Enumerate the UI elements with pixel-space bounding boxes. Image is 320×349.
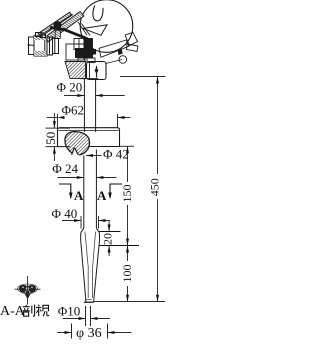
100 [126,246,129,253]
phi36 [65,331,72,334]
svg-text:450: 450 [147,178,161,196]
bulge collar [81,227,84,241]
dark chain link [118,49,123,56]
small white cells below [78,58,85,63]
phi10 [79,317,86,320]
entry stub [28,44,31,46]
white box [66,44,84,60]
phi40 [74,219,81,222]
head body center [65,39,122,80]
small hatched boss [55,31,60,39]
tip face [84,301,94,303]
chain blob [53,21,61,29]
skirt lines [78,22,90,36]
phi42 leader [86,155,102,157]
wing nut lower [127,44,139,52]
step D [53,39,59,54]
terminal box [87,62,107,80]
bottom extension [94,301,165,303]
svg-text:A: A [97,188,107,203]
20 dim lines [99,231,121,233]
150 [126,146,129,153]
screw symbol in box [96,66,98,78]
phi62 [58,116,65,119]
svg-text:A-A: A-A [0,304,26,319]
A-A arrows [69,193,73,200]
svg-text:100: 100 [120,265,134,283]
150 dim [120,145,135,147]
black block [84,39,93,59]
phi20 dim [64,95,84,97]
terminal dot [69,61,72,64]
svg-text:50: 50 [43,132,58,145]
phi24 dim [58,177,84,179]
gland nut A [29,37,35,55]
flange phi62 [58,128,120,147]
phi40 dim [62,220,81,222]
svg-text:Φ 20: Φ 20 [57,80,83,95]
phi10 dim [85,306,87,326]
20 dim [108,225,111,232]
svg-text:Φ62: Φ62 [62,103,85,118]
hand-drawn CJK: shi [36,305,49,317]
svg-text:φ 36: φ 36 [76,326,102,341]
cover latch triangle [83,25,107,36]
50 dim lines [46,127,71,129]
outer taper [81,241,86,299]
head bottom shoulder [80,78,98,80]
A-A label [0,304,49,319]
gland body B [34,36,47,57]
hatched cover band [45,12,85,43]
phi24 [77,176,84,179]
cover dome circle [80,0,133,52]
hand-drawn CJK: pou [23,305,35,317]
svg-text:Φ 24: Φ 24 [52,161,78,176]
top step rects [36,33,43,37]
phi20 [77,94,84,97]
svg-text:150: 150 [120,185,134,203]
svg-text:A: A [74,188,84,203]
phi36 dim [71,324,73,339]
ear circle [119,56,127,64]
svg-text:20: 20 [101,233,115,245]
450 dim [120,76,166,78]
neck stem phi20 [83,79,85,132]
protection tube phi24 [83,156,85,228]
wing nut upper [125,33,138,46]
100 dim [127,246,129,262]
bolt bar tilted rect [99,40,129,57]
black clamp bar (descending) [50,28,88,39]
U handle on cap [93,6,103,21]
phi42 [86,154,93,157]
arrowheads [53,77,159,335]
450 [156,77,159,84]
brim thin band [38,12,72,36]
leader from box corner [106,60,122,64]
cable gland stack [28,33,59,57]
step C [47,37,53,55]
A-A section marks [59,184,122,197]
50 [53,121,56,128]
svg-text:Φ 40: Φ 40 [52,206,78,221]
svg-text:Φ10: Φ10 [58,304,81,319]
hatched base block [65,62,86,79]
svg-text:Φ 42: Φ 42 [103,147,129,162]
grid box top [74,39,84,50]
phi62 dim [47,117,58,119]
inner bore (light) [85,232,96,300]
transition blob hatched [65,132,89,155]
